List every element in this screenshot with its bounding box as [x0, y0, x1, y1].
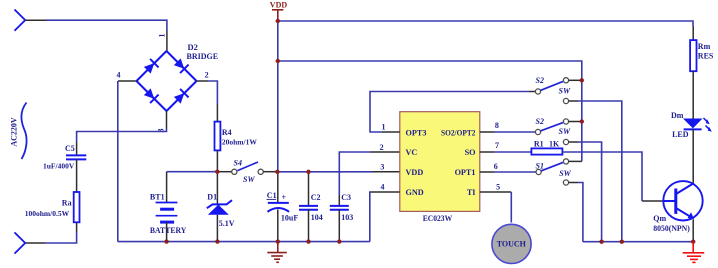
junction dot C2 rail	[306, 170, 310, 174]
C5 bottom stub to Ra	[76, 159, 78, 192]
wire pin6 to S1	[494, 171, 536, 173]
svg-text:TOUCH: TOUCH	[497, 240, 527, 249]
wire pin7 to R1	[494, 151, 531, 153]
C5 top stub	[76, 142, 78, 155]
switch S2b	[535, 119, 568, 145]
svg-text:SW: SW	[559, 127, 571, 136]
svg-text:RES: RES	[698, 51, 714, 60]
wire S1 bottom throw to ground rail	[569, 182, 578, 184]
op-amp U1 body (EC023W IC)	[400, 112, 480, 212]
wire S1 top throw to VDD bus end	[569, 160, 582, 162]
IC pin 1 stub	[382, 131, 400, 133]
wire VDD vertical	[277, 21, 279, 172]
svg-text:D1: D1	[207, 193, 217, 202]
switch S4	[218, 162, 277, 174]
svg-text:Ra: Ra	[62, 199, 72, 208]
wire VDD second rail	[278, 61, 582, 161]
svg-text:BRIDGE: BRIDGE	[187, 52, 219, 61]
capacitor C1 (electrolytic)	[268, 203, 290, 212]
wire VC to C3	[339, 152, 370, 195]
svg-text:8050(NPN): 8050(NPN)	[653, 224, 690, 233]
svg-text:20ohm/1W: 20ohm/1W	[222, 138, 258, 147]
wire R1 to transistor base	[562, 152, 642, 201]
C3 bottom stub	[338, 210, 340, 242]
svg-text:SO2/OPT2: SO2/OPT2	[441, 128, 476, 137]
resistor R4	[215, 122, 221, 151]
bridge D2 diamond	[137, 51, 197, 111]
wire S2b bottom throw to ground bus	[569, 141, 578, 143]
transistor Qm (8050 NPN)	[663, 181, 702, 220]
R4 top stub	[216, 104, 218, 122]
svg-text:D2: D2	[188, 42, 198, 52]
wire LED to transistor collector	[692, 129, 694, 183]
ground symbol (right, red)	[683, 242, 705, 263]
pin stub connector P1	[25, 19, 46, 21]
svg-text:1: 1	[158, 34, 167, 38]
svg-text:TI: TI	[467, 188, 476, 197]
bridge diode top-right	[173, 58, 189, 74]
junction dot S2b ground	[599, 240, 603, 244]
transistor emitter stub	[692, 219, 694, 241]
svg-text:100ohm/0.5W: 100ohm/0.5W	[25, 209, 70, 218]
junction dot VDD top	[276, 19, 280, 23]
junction dot S2a/VDD bus	[580, 78, 584, 82]
Ra bottom stub	[76, 222, 78, 232]
bridge diode bottom-right	[173, 89, 189, 105]
junction dot battery ground	[164, 239, 168, 243]
IC pin 3 stub	[372, 171, 400, 173]
IC pin 7 stub	[480, 151, 494, 153]
IC pin 4 stub	[370, 191, 399, 193]
svg-text:S1: S1	[536, 161, 544, 170]
C2 bottom stub	[308, 210, 310, 242]
junction dot C1 ground	[276, 239, 280, 243]
svg-text:C3: C3	[341, 193, 351, 202]
wire S2a top throw to VDD bus	[569, 79, 582, 81]
resistor Rm	[692, 26, 694, 40]
svg-text:SW: SW	[243, 175, 255, 184]
wire S2b top throw to VDD bus	[569, 121, 582, 123]
IC pin 2 stub	[370, 151, 399, 153]
R4 bottom stub	[216, 150, 218, 171]
capacitor C5	[66, 155, 86, 159]
wire Ra to bottom connector	[45, 232, 77, 243]
svg-text:BATTERY: BATTERY	[150, 225, 187, 235]
svg-text:8: 8	[495, 121, 499, 130]
svg-text:R1: R1	[534, 139, 544, 148]
svg-text:SW: SW	[559, 169, 571, 178]
junction dot R4/D1/S4	[215, 170, 219, 174]
svg-text:VC: VC	[406, 148, 418, 157]
AC source curve	[21, 103, 26, 160]
resistor R1	[531, 148, 562, 154]
switch S1	[536, 159, 569, 185]
wire bridge pin 2 to R4	[208, 81, 217, 104]
D1 anode stub	[216, 215, 218, 242]
bridge pin 1 stub	[166, 31, 168, 52]
svg-text:C5: C5	[65, 144, 75, 153]
svg-text:2: 2	[205, 71, 209, 80]
LED Dm	[683, 118, 712, 132]
capacitor C2 top stub	[308, 172, 310, 206]
svg-text:6: 6	[494, 162, 498, 171]
svg-text:1uF/400V: 1uF/400V	[43, 162, 75, 171]
bridge pin 3 stub	[166, 111, 168, 128]
IC pin 6 stub	[480, 171, 494, 173]
wire bridge pin 3 to C5	[77, 128, 167, 143]
svg-text:OPT3: OPT3	[406, 128, 427, 137]
wire VDD rail to IC pin 3	[277, 171, 372, 173]
pin stub connector P2	[25, 242, 45, 244]
wire ground rail right	[583, 241, 693, 243]
svg-text:R4: R4	[222, 128, 232, 137]
svg-text:5: 5	[496, 182, 500, 191]
svg-text:4: 4	[117, 71, 121, 80]
svg-text:Dm: Dm	[671, 111, 684, 120]
wire Rm to LED	[692, 71, 694, 118]
junction dot S2b/VDD bus	[580, 119, 584, 123]
capacitor C3	[330, 206, 349, 210]
switch S2a	[535, 78, 568, 104]
junction dot D1 ground	[215, 239, 219, 243]
connector P1 (AC input top-left)	[15, 10, 26, 31]
battery top stub	[166, 172, 168, 203]
wire OPT3 to S2a	[370, 92, 529, 133]
svg-text:C2: C2	[311, 193, 321, 202]
bridge pin 4 stub	[118, 80, 137, 82]
battery BT1	[156, 203, 178, 223]
capacitor C1 top stub	[277, 172, 279, 203]
svg-text:3: 3	[380, 162, 384, 171]
svg-text:1: 1	[382, 123, 386, 132]
svg-text:SO: SO	[465, 148, 476, 157]
connector P2 (AC input bottom-left)	[15, 232, 26, 253]
svg-text:104: 104	[311, 213, 323, 222]
wire GND down to rail	[369, 192, 372, 242]
wire top-left AC to bridge pin 1	[46, 20, 167, 31]
bridge pin 2 stub	[197, 80, 209, 82]
power VDD symbol	[270, 1, 288, 22]
svg-text:VDD: VDD	[406, 168, 424, 177]
wire ground rail left	[118, 241, 370, 243]
wire pin5 to touch pad	[494, 191, 511, 193]
bridge diode top-left	[143, 59, 159, 75]
wire VDD top rail	[278, 21, 693, 26]
svg-text:S2: S2	[536, 76, 544, 85]
junction dot C2 ground	[306, 239, 310, 243]
bridge diode bottom-left	[143, 88, 159, 104]
svg-text:+: +	[282, 193, 287, 202]
transistor base stub	[642, 200, 664, 202]
wire battery rail	[167, 171, 217, 173]
svg-text:Qm: Qm	[653, 214, 666, 223]
svg-text:1K: 1K	[549, 139, 560, 148]
svg-text:4: 4	[381, 182, 385, 191]
svg-text:BT1: BT1	[150, 193, 165, 202]
S2a common stub	[529, 91, 535, 93]
svg-text:103: 103	[341, 213, 353, 222]
svg-text:2: 2	[380, 143, 384, 152]
zener D1	[207, 200, 232, 215]
junction dot S4/C1/VDD	[275, 170, 279, 174]
junction dot emitter ground	[691, 240, 695, 244]
svg-text:EC023W: EC023W	[423, 213, 453, 223]
svg-text:S2: S2	[536, 117, 544, 126]
svg-text:Rm: Rm	[698, 42, 711, 51]
svg-text:OPT1: OPT1	[455, 168, 476, 177]
battery bottom stub	[166, 222, 168, 242]
svg-text:LED: LED	[672, 130, 689, 139]
IC pin 8 stub	[480, 131, 494, 133]
junction dot C3 ground	[337, 239, 341, 243]
svg-text:5.1V: 5.1V	[219, 219, 235, 228]
wire bridge pin 4 down to ground rail	[117, 81, 119, 242]
svg-text:GND: GND	[406, 188, 424, 197]
junction dot VDD rail2	[276, 59, 280, 63]
wire S2a bottom throw to ground bus	[569, 100, 578, 102]
touch pad TOUCH	[492, 224, 531, 263]
svg-text:VDD: VDD	[270, 1, 288, 10]
svg-text:C1: C1	[267, 191, 277, 200]
svg-text:S4: S4	[234, 158, 242, 167]
svg-text:10uF: 10uF	[281, 214, 298, 223]
resistor Ra	[74, 192, 80, 222]
IC pin 5 stub	[480, 191, 494, 193]
ground symbol (middle, dark red)	[267, 242, 287, 263]
C3 top stub	[338, 195, 340, 206]
zener D1 cathode stub	[216, 172, 218, 204]
svg-text:SW: SW	[559, 87, 571, 96]
C1 bottom stub	[277, 210, 279, 242]
wire pin8 to S2b	[494, 131, 535, 133]
svg-text:7: 7	[495, 141, 499, 150]
junction dot S2a ground	[620, 240, 624, 244]
svg-text:AC220V: AC220V	[10, 117, 19, 147]
capacitor C2	[299, 206, 318, 210]
